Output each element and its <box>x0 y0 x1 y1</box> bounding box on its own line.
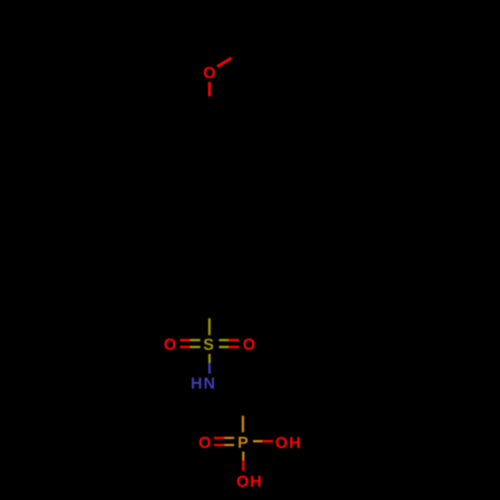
atom N1 amine HN label <box>192 378 214 389</box>
bond S1=O2 upper line (olive half) <box>191 339 201 341</box>
bond O1-C(ring) red half (down) <box>208 82 211 96</box>
atom O1 methoxy oxygen label <box>204 67 215 78</box>
bond S1-N1 blue half <box>208 363 210 374</box>
bond S1=O2 lower line (olive half) <box>191 346 201 348</box>
bond P1=O4 lower line (red half) <box>214 444 225 446</box>
bond P1-O6 red half (down) <box>242 460 244 471</box>
atom O4 phosphoryl oxygen label <box>199 437 210 448</box>
atom P1 phosphorus label <box>239 437 248 448</box>
bond O1-CH3 red half (up-right) <box>217 58 231 67</box>
bond C-S olive half above S <box>208 318 210 335</box>
bond S1=O3 lower line (olive half) <box>219 346 228 348</box>
bond S1=O3 lower line (red half) <box>228 346 239 348</box>
atom O3 sulfonyl right oxygen label <box>243 339 254 350</box>
atom O5 hydroxyl OH label (right) <box>276 437 300 448</box>
atom S1 sulfur label <box>204 339 214 350</box>
bond P1-O6 orange half (down) <box>242 452 244 460</box>
bond S1=O2 lower line (red half) <box>180 346 191 348</box>
bond S1-N1 olive half <box>208 354 210 363</box>
bond S1=O2 upper line (red half) <box>180 339 191 341</box>
bond S1=O3 upper line (olive half) <box>219 339 228 341</box>
bond P1=O4 upper line (orange half) <box>225 437 235 439</box>
atom O2 sulfonyl left oxygen label <box>164 339 175 350</box>
bond P1=O4 lower line (orange half) <box>225 444 235 446</box>
bond P1=O4 upper line (red half) <box>214 437 225 439</box>
bond S1=O3 upper line (red half) <box>228 339 239 341</box>
bond P1-O5 red half (right) <box>262 440 273 442</box>
bond P1-O5 orange half (right) <box>253 440 262 442</box>
bond C-P orange half above P <box>242 416 244 433</box>
atom O6 hydroxyl OH label (bottom) <box>237 476 260 487</box>
